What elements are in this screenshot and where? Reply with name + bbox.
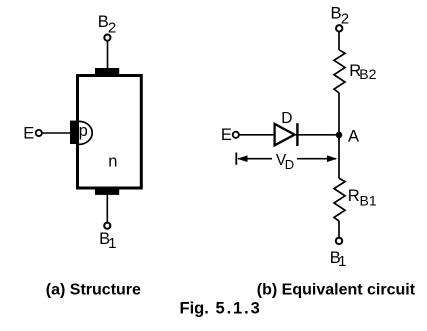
- svg-text:B1: B1: [360, 193, 377, 209]
- svg-text:1: 1: [108, 235, 116, 252]
- svg-text:n: n: [108, 153, 117, 171]
- svg-text:2: 2: [341, 10, 349, 27]
- svg-text:E: E: [23, 124, 34, 142]
- svg-text:(b) Equivalent circuit: (b) Equivalent circuit: [257, 281, 416, 298]
- svg-text:D: D: [285, 157, 294, 172]
- svg-text:E: E: [221, 126, 232, 144]
- svg-text:A: A: [348, 128, 359, 146]
- svg-text:5.1.3: 5.1.3: [216, 300, 262, 318]
- svg-text:1: 1: [338, 253, 346, 270]
- svg-text:2: 2: [108, 19, 116, 36]
- svg-text:D: D: [281, 110, 292, 127]
- svg-text:R: R: [348, 187, 360, 205]
- svg-text:Fig.: Fig.: [180, 300, 209, 318]
- svg-text:B2: B2: [359, 66, 376, 82]
- svg-text:(a) Structure: (a) Structure: [46, 281, 141, 298]
- svg-text:p: p: [79, 122, 88, 140]
